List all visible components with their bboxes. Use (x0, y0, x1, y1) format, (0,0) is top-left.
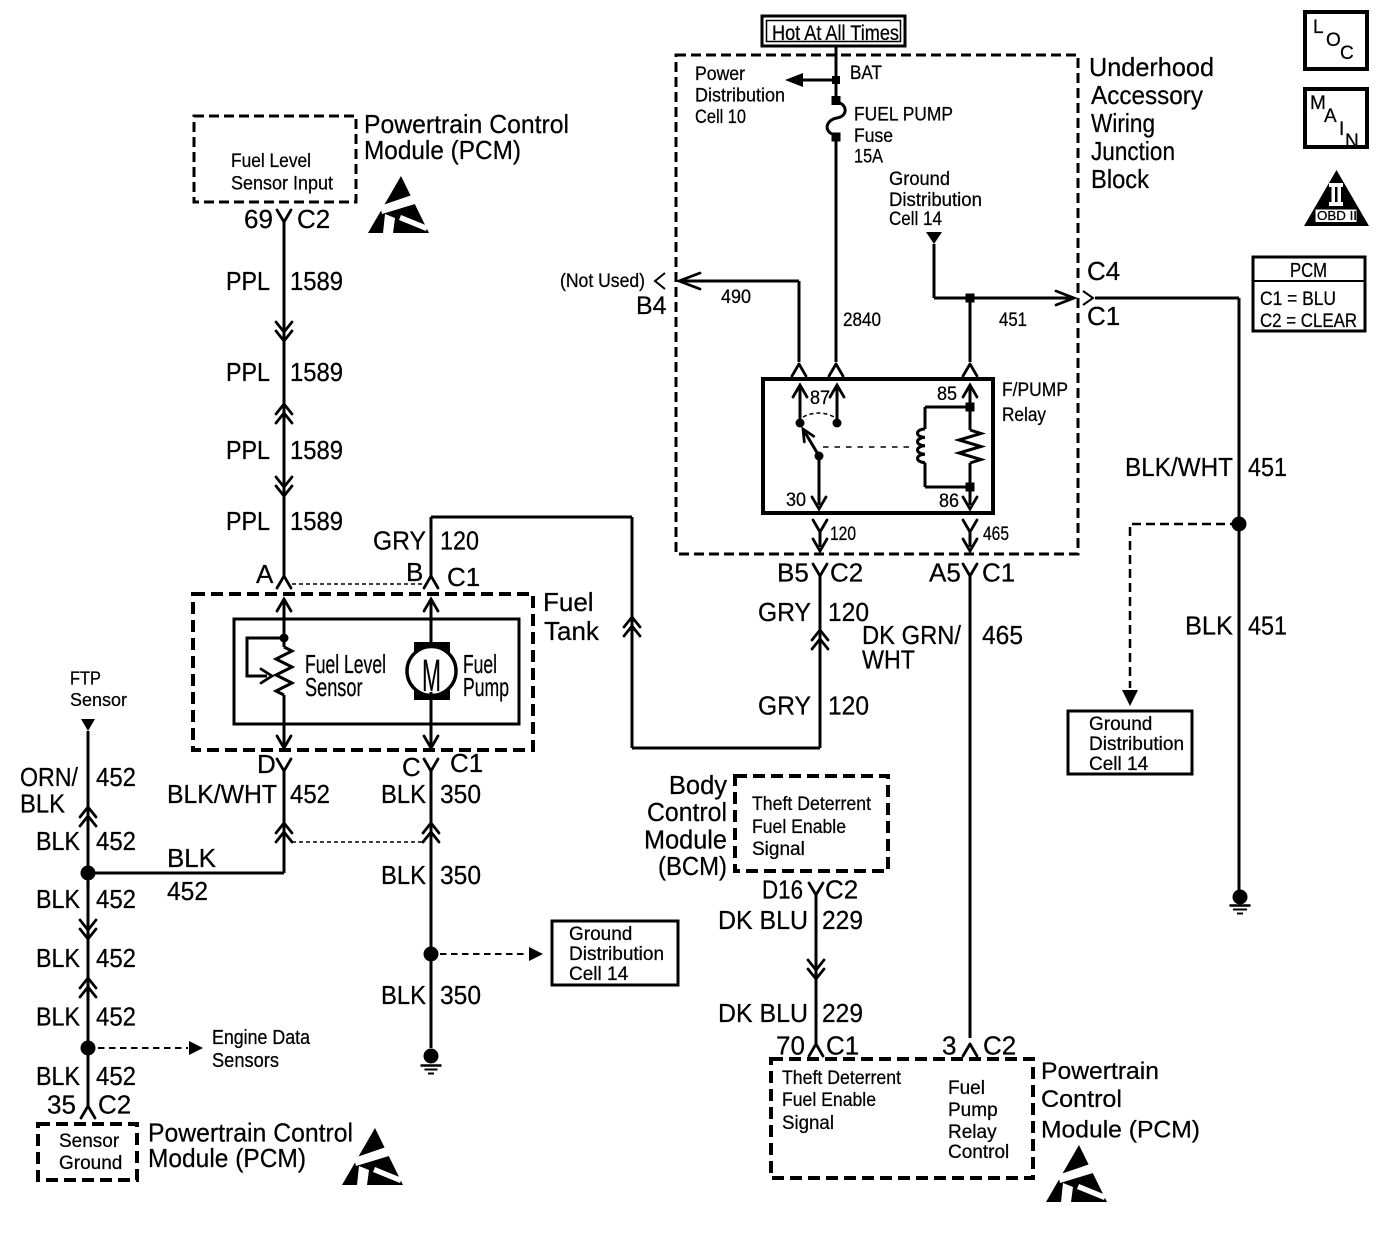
connector chevron into relay pin 85 (963, 364, 977, 376)
svg-text:Theft Deterrent: Theft Deterrent (752, 794, 872, 815)
svg-text:452: 452 (96, 762, 136, 792)
svg-text:Distribution: Distribution (889, 190, 982, 211)
BAT junction square (832, 76, 840, 84)
svg-text:C4: C4 (1087, 256, 1120, 286)
svg-text:BLK: BLK (36, 884, 81, 914)
svg-text:Pump: Pump (948, 1100, 998, 1121)
wire GRY 120 down to B (430, 517, 433, 576)
svg-text:1589: 1589 (290, 435, 343, 465)
svg-text:Control: Control (1041, 1086, 1122, 1113)
svg-text:Control: Control (647, 799, 727, 827)
svg-text:490: 490 (721, 287, 751, 308)
wire GRY 120 bottom horizontal (632, 747, 820, 750)
arrow up into tank at A (277, 599, 291, 611)
svg-text:452: 452 (96, 826, 136, 856)
module box: Fuel Level Sensor Input (PCM) (194, 116, 356, 202)
svg-text:C1: C1 (1087, 301, 1120, 331)
sensor wiper arm (247, 638, 284, 676)
junction square 451 (966, 294, 975, 303)
svg-text:FTP: FTP (70, 668, 101, 689)
svg-text:BLK: BLK (36, 1002, 81, 1032)
svg-text:F/PUMP: F/PUMP (1002, 380, 1068, 401)
inline connector chevron up (80, 807, 96, 826)
inline connector chevron up on C wire (423, 823, 439, 842)
svg-text:GRY: GRY (758, 597, 811, 627)
connector chevron into relay pin 87a (792, 364, 806, 376)
svg-text:C: C (402, 752, 421, 782)
svg-text:Sensor Input: Sensor Input (231, 174, 334, 195)
svg-text:Accessory: Accessory (1091, 80, 1203, 110)
svg-text:Hot At All Times: Hot At All Times (772, 22, 899, 45)
connector chevron into relay pin 87b (829, 364, 843, 376)
dashed link to ground distribution right (1130, 524, 1239, 688)
connector Y inverted at 70 C1 (809, 1044, 823, 1056)
FTP sensor arrow down (81, 719, 95, 731)
inline connector chevron down (80, 920, 96, 939)
svg-text:1589: 1589 (290, 506, 343, 536)
fuel level sensor resistor (283, 619, 286, 647)
svg-text:Signal: Signal (752, 839, 805, 860)
svg-text:GRY: GRY (373, 526, 426, 556)
svg-text:451: 451 (1248, 611, 1287, 641)
BAT feed arrow left (801, 79, 836, 82)
module box: BCM theft deterrent (735, 776, 888, 871)
ground distribution cell 14 box left (552, 921, 678, 985)
svg-text:1589: 1589 (290, 266, 343, 296)
arrow down to ground distribution right (1122, 690, 1138, 706)
junction dot 451 (1232, 517, 1247, 532)
svg-text:Engine Data: Engine Data (212, 1027, 311, 1049)
svg-text:Cell 14: Cell 14 (1089, 754, 1149, 775)
svg-text:2840: 2840 (843, 310, 881, 331)
svg-text:C2: C2 (983, 1031, 1016, 1061)
svg-text:Pump: Pump (463, 672, 509, 702)
relay switch arm (815, 452, 824, 461)
svg-text:Control: Control (948, 1142, 1009, 1163)
svg-text:DK BLU: DK BLU (718, 905, 808, 935)
svg-text:Underhood: Underhood (1089, 52, 1214, 82)
svg-text:C: C (1340, 43, 1354, 64)
thin dashed link to ground distribution (440, 953, 528, 955)
connector Y at B (424, 576, 438, 588)
svg-text:452: 452 (96, 1061, 136, 1091)
pin 86 internal (969, 487, 972, 505)
svg-text:86: 86 (939, 491, 959, 512)
connector Y at D16 C2 (809, 883, 823, 895)
PCM connector legend box (1253, 257, 1365, 331)
connector Y below relay pin 86 (963, 520, 977, 532)
svg-text:Relay: Relay (948, 1122, 997, 1143)
arrow to engine data sensors (189, 1041, 203, 1055)
svg-text:BAT: BAT (850, 63, 882, 84)
wire from hot at all times (835, 46, 838, 100)
svg-text:Sensor: Sensor (59, 1131, 120, 1152)
ground symbol G108 (1233, 890, 1248, 905)
svg-text:A: A (256, 559, 274, 589)
svg-text:PPL: PPL (226, 435, 270, 465)
svg-text:Wiring: Wiring (1091, 108, 1155, 138)
arrow down at C inside tank (424, 736, 438, 748)
wire BLK/WHT 451 vertical (1238, 298, 1241, 890)
Hot At All Times box (762, 16, 905, 46)
svg-text:Ground: Ground (59, 1153, 122, 1174)
wire ORN/BLK - BLK 452 chain (87, 731, 90, 1106)
fuel tank inner solid box (234, 619, 519, 724)
svg-text:451: 451 (999, 310, 1027, 331)
wire DK BLU 229 (815, 895, 818, 1044)
svg-text:ORN/: ORN/ (20, 762, 79, 792)
wire GRY 120 left vertical (631, 517, 634, 748)
svg-text:Sensors: Sensors (212, 1050, 279, 1072)
svg-text:Fuel Level: Fuel Level (231, 151, 311, 172)
svg-text:87: 87 (810, 388, 830, 409)
connector chevron at C4 (1083, 291, 1093, 305)
svg-text:Module: Module (644, 827, 727, 855)
svg-text:N: N (1345, 131, 1359, 152)
connector Y at C (424, 759, 438, 771)
svg-text:C2 = CLEAR: C2 = CLEAR (1260, 311, 1357, 332)
svg-text:Fuel Enable: Fuel Enable (752, 817, 846, 838)
svg-text:B5: B5 (777, 558, 809, 588)
ESD symbol bottom left (342, 1128, 403, 1185)
svg-text:452: 452 (96, 1002, 136, 1032)
svg-text:DK BLU: DK BLU (718, 998, 808, 1028)
inline connector chevron down (276, 322, 292, 341)
svg-text:Cell 14: Cell 14 (889, 209, 942, 230)
arrow to ground distribution box (529, 947, 543, 961)
inline connector chevron up on GRY vertical (624, 617, 640, 636)
wire 490 (679, 273, 700, 289)
svg-text:BLK/WHT: BLK/WHT (167, 779, 277, 809)
relay pin 87a internal (799, 387, 802, 423)
svg-text:B4: B4 (636, 292, 667, 320)
svg-text:C1 = BLU: C1 = BLU (1260, 289, 1336, 310)
connector Y at A5 C1 (963, 564, 977, 576)
connector Y below relay pin 30 (813, 520, 827, 532)
svg-text:O: O (1326, 30, 1341, 51)
svg-text:Fuse: Fuse (854, 126, 893, 147)
svg-text:Module (PCM): Module (PCM) (364, 135, 521, 165)
junction dot BLK 452 (81, 866, 96, 881)
svg-text:C2: C2 (830, 558, 863, 588)
MAIN box (1305, 89, 1367, 147)
svg-text:D16: D16 (762, 875, 803, 905)
wire PPL 1589 vertical (283, 222, 286, 576)
wire relay 85 up to 451 (969, 298, 972, 362)
svg-text:BLK/WHT: BLK/WHT (1125, 452, 1233, 482)
ground symbol G107 (424, 1049, 439, 1064)
svg-text:350: 350 (440, 779, 481, 809)
svg-text:FUEL PUMP: FUEL PUMP (854, 105, 953, 126)
wire DK GRN/WHT 465 from A5 (969, 576, 972, 1038)
svg-text:30: 30 (786, 490, 806, 511)
svg-text:A5: A5 (929, 558, 961, 588)
inline connector chevron down on DK BLU (808, 960, 824, 979)
svg-text:Ground: Ground (1089, 714, 1152, 735)
svg-text:Ground: Ground (889, 169, 950, 190)
svg-text:C1: C1 (450, 748, 483, 778)
svg-text:C1: C1 (982, 558, 1015, 588)
underhood junction block dashed box (676, 55, 1078, 554)
relay switch to pin 30 (818, 456, 821, 505)
coil junction squares (966, 403, 975, 412)
wire BLK/WHT 452 from D (283, 771, 286, 873)
fuse FUEL PUMP 15A (832, 96, 841, 105)
svg-text:1589: 1589 (290, 357, 343, 387)
inline connector chevron up (80, 978, 96, 997)
svg-text:C1: C1 (447, 562, 480, 592)
inline connector chevron up on GRY (812, 630, 828, 649)
connector Y at A (277, 576, 291, 588)
thin dashed link to engine data sensors (98, 1047, 188, 1049)
svg-text:PPL: PPL (226, 357, 270, 387)
svg-text:452: 452 (290, 779, 330, 809)
svg-text:3: 3 (942, 1031, 956, 1061)
wire GRY 120 from B5 (819, 576, 822, 748)
svg-text:C1: C1 (826, 1031, 859, 1061)
ESD symbol top (368, 176, 429, 233)
ground distribution cell 14 box right (1068, 711, 1192, 774)
svg-text:Body: Body (669, 772, 727, 800)
fuel pump motor M (430, 619, 433, 650)
arrow down at D inside tank (277, 736, 291, 748)
svg-text:BLK: BLK (36, 943, 81, 973)
svg-text:OBD II: OBD II (1317, 208, 1357, 223)
svg-text:B: B (406, 557, 423, 587)
svg-text:PPL: PPL (226, 506, 270, 536)
svg-text:229: 229 (822, 998, 863, 1028)
connector Y at B5 C2 (813, 564, 827, 576)
svg-text:Distribution: Distribution (1089, 734, 1184, 755)
wire 2840 fuse to relay (835, 137, 838, 362)
inline connector chevron down (276, 477, 292, 496)
ground distribution feed arrow down (926, 232, 942, 244)
relay pin 87b internal (836, 387, 839, 423)
svg-text:452: 452 (167, 876, 208, 906)
svg-text:Signal: Signal (782, 1113, 834, 1134)
svg-text:229: 229 (822, 905, 863, 935)
svg-text:Fuel: Fuel (948, 1078, 985, 1099)
svg-text:15A: 15A (854, 147, 883, 168)
connector Y inverted at 35 C2 (81, 1106, 95, 1118)
connector Y at pin 69 C2 (277, 210, 291, 222)
wire BLK 452 horizontal (88, 872, 284, 875)
svg-text:Module (PCM): Module (PCM) (1041, 1117, 1200, 1144)
svg-text:35: 35 (47, 1090, 76, 1120)
OBD II triangle (1304, 170, 1369, 226)
svg-text:350: 350 (440, 860, 481, 890)
svg-text:120: 120 (830, 524, 856, 545)
junction dot engine data sensors (81, 1041, 96, 1056)
dashed arc between 87 contacts (803, 413, 834, 417)
inline connector chevron up (276, 404, 292, 423)
svg-text:GRY: GRY (758, 691, 811, 721)
wire down from pump to C (430, 724, 433, 746)
svg-text:Power: Power (695, 64, 746, 85)
svg-text:120: 120 (440, 526, 479, 556)
connector Y at D (277, 759, 291, 771)
inline connector chevron up on D wire (276, 823, 292, 842)
svg-text:PCM: PCM (1290, 260, 1327, 282)
module box: Sensor Ground (PCM) (38, 1124, 137, 1180)
svg-text:70: 70 (776, 1031, 805, 1061)
svg-text:BLK: BLK (381, 860, 427, 890)
svg-text:D: D (257, 749, 276, 779)
svg-text:Tank: Tank (544, 616, 600, 646)
svg-text:C2: C2 (297, 204, 330, 234)
svg-text:PPL: PPL (226, 266, 270, 296)
svg-text:85: 85 (937, 384, 957, 405)
arrow right at C4 (1056, 291, 1074, 305)
svg-text:BLK: BLK (36, 1061, 81, 1091)
relay coil (924, 407, 927, 429)
svg-text:120: 120 (828, 691, 869, 721)
svg-text:(Not Used): (Not Used) (560, 271, 645, 292)
svg-text:Distribution: Distribution (569, 944, 664, 965)
svg-text:69: 69 (244, 204, 273, 234)
svg-text:Sensor: Sensor (305, 672, 363, 702)
svg-text:Ground: Ground (569, 924, 632, 945)
connector chevron at B4 (655, 273, 665, 289)
dashed mechanical link (823, 446, 910, 448)
relay F/PUMP box (763, 379, 993, 513)
thin dashed connector link A-B (292, 583, 424, 585)
LOC box (1305, 12, 1367, 69)
svg-text:BLK: BLK (381, 980, 427, 1010)
fuel tank dashed box (193, 594, 533, 750)
svg-text:WHT: WHT (862, 645, 915, 675)
svg-text:Theft Deterrent: Theft Deterrent (782, 1068, 902, 1089)
wire BLK/WHT 451 horizontal (1095, 297, 1239, 300)
svg-text:Fuel Enable: Fuel Enable (782, 1090, 876, 1111)
svg-text:Sensor: Sensor (70, 689, 127, 710)
svg-text:BLK: BLK (36, 826, 81, 856)
svg-text:BLK: BLK (1185, 611, 1234, 641)
ESD symbol bottom right (1046, 1145, 1107, 1202)
svg-text:452: 452 (96, 943, 136, 973)
svg-text:Junction: Junction (1091, 136, 1175, 166)
connector Y inverted at 3 C2 (963, 1044, 977, 1056)
svg-text:BLK: BLK (167, 843, 217, 873)
svg-text:Fuel: Fuel (543, 587, 594, 617)
svg-text:451: 451 (1248, 452, 1287, 482)
wire 451 from ground distribution (933, 244, 936, 298)
wire BLK 350 from C (430, 771, 433, 1048)
svg-text:465: 465 (982, 620, 1023, 650)
svg-text:I: I (1339, 119, 1344, 140)
svg-text:C2: C2 (98, 1090, 131, 1120)
svg-text:BLK: BLK (381, 779, 427, 809)
svg-text:Relay: Relay (1002, 405, 1046, 426)
svg-text:452: 452 (96, 884, 136, 914)
relay resistor (969, 387, 972, 430)
svg-text:350: 350 (440, 980, 481, 1010)
svg-text:Cell 10: Cell 10 (695, 107, 746, 128)
junction dot on BLK 350 (424, 947, 439, 962)
module box: PCM theft deterrent / fuel pump relay control (771, 1059, 1033, 1178)
svg-text:Module (PCM): Module (PCM) (148, 1143, 306, 1173)
svg-text:C2: C2 (825, 875, 858, 905)
arrow up into tank at B (424, 599, 438, 611)
svg-text:465: 465 (983, 524, 1009, 545)
svg-text:L: L (1313, 17, 1324, 38)
wire GRY 120 horizontal top (431, 516, 632, 519)
svg-text:Distribution: Distribution (695, 86, 785, 107)
svg-text:(BCM): (BCM) (658, 853, 727, 881)
thin dashed connector link D-C (292, 841, 423, 843)
svg-text:Powertrain: Powertrain (1041, 1058, 1159, 1085)
svg-text:Block: Block (1091, 164, 1150, 194)
svg-text:BLK: BLK (20, 789, 66, 819)
wire down from sensor to D (283, 724, 286, 746)
svg-text:A: A (1324, 106, 1337, 127)
svg-text:Cell 14: Cell 14 (569, 964, 629, 985)
